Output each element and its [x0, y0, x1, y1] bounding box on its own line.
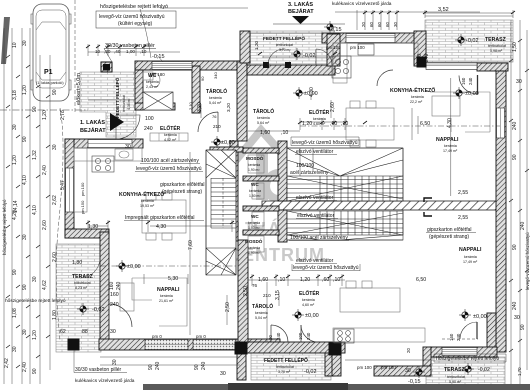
- svg-text:kerámia: kerámia: [464, 255, 477, 259]
- svg-text:pm 100: pm 100: [326, 45, 341, 50]
- svg-text:hőszigetelésbe rejtett lefolyó: hőszigetelésbe rejtett lefolyó: [436, 356, 499, 362]
- svg-text:90: 90: [512, 154, 518, 160]
- N wall unit2: [247, 65, 335, 75]
- svg-text:100/100 acél zártszelvény: 100/100 acél zártszelvény: [141, 158, 199, 164]
- svg-text:kerámia: kerámia: [257, 116, 270, 120]
- svg-text:1,80: 1,80: [72, 260, 82, 266]
- svg-text:60: 60: [377, 22, 382, 27]
- svg-text:(kültéri egység): (kültéri egység): [118, 21, 153, 27]
- svg-text:30: 30: [12, 346, 18, 352]
- svg-text:tértburkolat: tértburkolat: [447, 375, 465, 379]
- svg-text:1. LAKÁS: 1. LAKÁS: [80, 119, 105, 126]
- covered step bottom-middle: [251, 350, 331, 380]
- svg-text:kerámia: kerámia: [209, 96, 222, 100]
- svg-text:30: 30: [22, 40, 28, 46]
- svg-text:gipszkarton előtétfal: gipszkarton előtétfal: [427, 227, 471, 233]
- svg-text:±0,00: ±0,00: [473, 314, 487, 320]
- svg-text:20: 20: [361, 22, 366, 27]
- svg-text:5,47: 5,47: [60, 180, 66, 190]
- risers: [211, 179, 236, 229]
- svg-text:90: 90: [12, 269, 18, 275]
- terrace bottom-left: [56, 244, 101, 352]
- svg-text:3,70 m²: 3,70 m²: [278, 370, 291, 374]
- svg-text:NAPPALI: NAPPALI: [459, 247, 482, 253]
- svg-text:1,90 m²: 1,90 m²: [248, 168, 260, 172]
- svg-text:160: 160: [110, 292, 119, 298]
- svg-text:4,10: 4,10: [32, 205, 38, 215]
- svg-text:2,40: 2,40: [22, 362, 28, 372]
- svg-text:1,20: 1,20: [300, 277, 310, 283]
- svg-text:TÁROLÓ: TÁROLÓ: [206, 87, 227, 95]
- bottom-right dining table: [340, 288, 400, 312]
- left kitchen counter + stove: [74, 148, 142, 161]
- svg-text:pm 100: pm 100: [357, 365, 372, 370]
- svg-text:160: 160: [461, 77, 466, 85]
- svg-text:WC: WC: [251, 214, 259, 219]
- right verticals: [511, 20, 527, 384]
- partition north of stair block: [210, 147, 243, 152]
- svg-text:6,50: 6,50: [420, 121, 430, 127]
- svg-text:FEDETT FELLÉPŐ: FEDETT FELLÉPŐ: [264, 356, 308, 364]
- svg-text:88: 88: [82, 329, 88, 335]
- svg-text:KONYHA-ÉTKEZŐ: KONYHA-ÉTKEZŐ: [119, 190, 164, 198]
- S wall right unit east: [430, 347, 497, 357]
- svg-text:Impregnált gipszkarton előtétf: Impregnált gipszkarton előtétfal: [125, 215, 194, 221]
- S wall right unit west: [374, 366, 431, 376]
- svg-text:1,60: 1,60: [258, 277, 268, 283]
- svg-text:3,18: 3,18: [12, 90, 18, 100]
- N wall kitchen left: [65, 139, 143, 148]
- svg-text:2,60: 2,60: [330, 102, 336, 112]
- svg-text:10: 10: [12, 42, 18, 48]
- wall under terrace east part: [477, 63, 508, 71]
- svg-text:90: 90: [148, 364, 154, 370]
- svg-text:30: 30: [393, 22, 398, 27]
- svg-text:-0,02: -0,02: [304, 369, 317, 375]
- svg-text:1,80: 1,80: [52, 310, 58, 320]
- diagonal road strip top-left: [1, 17, 10, 64]
- svg-text:30: 30: [22, 234, 28, 240]
- watermark text: [227, 218, 325, 265]
- right dining table + chairs: [346, 108, 394, 140]
- svg-text:5,30: 5,30: [168, 276, 178, 282]
- svg-text:4,30: 4,30: [447, 118, 453, 128]
- svg-text:2,50: 2,50: [243, 286, 249, 296]
- svg-text:30/30 vasbeton pillér: 30/30 vasbeton pillér: [75, 367, 121, 373]
- svg-text:2,50: 2,50: [225, 302, 231, 312]
- svg-text:5,44 m²: 5,44 m²: [209, 101, 222, 105]
- svg-text:30: 30: [405, 368, 411, 374]
- svg-text:10: 10: [95, 49, 101, 54]
- svg-text:90: 90: [22, 136, 28, 142]
- svg-text:240: 240: [201, 361, 207, 370]
- svg-text:kerámia: kerámia: [255, 311, 268, 315]
- svg-text:90: 90: [520, 324, 526, 330]
- svg-text:2,60: 2,60: [52, 252, 58, 262]
- party wall upper: [237, 61, 247, 141]
- svg-text:kerámia: kerámia: [146, 80, 159, 84]
- svg-text:2,60: 2,60: [42, 220, 48, 230]
- svg-text:-0,15: -0,15: [408, 379, 421, 385]
- svg-text:30: 30: [220, 371, 226, 377]
- upper area diagonals/winders: [287, 148, 403, 176]
- court side walls bottom: [237, 353, 246, 380]
- svg-text:1,20: 1,20: [254, 41, 259, 50]
- party wall lower: [238, 240, 248, 346]
- svg-text:2,43 m²: 2,43 m²: [146, 85, 159, 89]
- svg-text:kerámia: kerámia: [313, 117, 326, 121]
- left verticals: [4, 28, 50, 384]
- svg-text:1,70: 1,70: [517, 367, 522, 376]
- svg-text:160: 160: [449, 333, 454, 341]
- entrance landing top-middle: [249, 31, 334, 65]
- svg-text:TÁROLÓ: TÁROLÓ: [252, 302, 273, 310]
- svg-text:,60: ,60: [330, 121, 337, 127]
- svg-text:60: 60: [369, 22, 374, 27]
- svg-text:5,90 m²: 5,90 m²: [449, 380, 462, 384]
- svg-text:240: 240: [155, 361, 161, 370]
- WC fixture top-left: [150, 73, 160, 87]
- terrace top-right: [425, 20, 513, 62]
- svg-text:2,40: 2,40: [42, 165, 48, 175]
- svg-text:hőszigetelésbe rejtett lefolyó: hőszigetelésbe rejtett lefolyó: [2, 199, 7, 255]
- svg-text:pm 100: pm 100: [381, 365, 396, 370]
- svg-text:100/100: 100/100: [296, 163, 314, 169]
- N wall left unit: [135, 61, 247, 70]
- svg-text:240: 240: [116, 281, 122, 290]
- svg-text:-0,02: -0,02: [466, 38, 479, 44]
- svg-text:90: 90: [268, 335, 273, 340]
- svg-text:30: 30: [112, 359, 118, 365]
- svg-text:WC: WC: [251, 182, 259, 187]
- svg-text:1,50: 1,50: [512, 42, 518, 52]
- svg-text:3,15: 3,15: [275, 290, 281, 300]
- svg-text:90: 90: [22, 284, 28, 290]
- bottom-right kitchen: [333, 328, 425, 342]
- svg-text:-0,15: -0,15: [329, 27, 342, 33]
- svg-text:4,30: 4,30: [156, 224, 166, 230]
- svg-text:kerámia: kerámia: [160, 294, 173, 298]
- svg-text:20: 20: [406, 348, 411, 353]
- svg-text:,10: ,10: [341, 121, 348, 127]
- svg-text:30: 30: [514, 315, 520, 321]
- svg-text:kerámia: kerámia: [248, 221, 260, 225]
- svg-text:2,62: 2,62: [52, 195, 58, 205]
- watermark logo house: [226, 130, 293, 199]
- lower flight: [320, 211, 397, 235]
- svg-text:elszívó ventilátor: elszívó ventilátor: [296, 149, 334, 155]
- svg-text:30: 30: [125, 144, 131, 150]
- svg-text:210: 210: [213, 124, 221, 129]
- svg-text:240: 240: [144, 126, 153, 132]
- svg-text:340: 340: [213, 72, 218, 79]
- S wall step vertical: [423, 347, 431, 376]
- svg-text:TERASZ: TERASZ: [72, 274, 94, 280]
- svg-text:MOSDÓ: MOSDÓ: [246, 154, 264, 161]
- bath E / stair W wall: [278, 141, 287, 201]
- svg-text:5,64 m²: 5,64 m²: [257, 121, 270, 125]
- svg-text:acél zártszelvény: acél zártszelvény: [290, 170, 329, 176]
- svg-text:,10: ,10: [140, 49, 147, 54]
- svg-text:kerámia: kerámia: [249, 189, 261, 193]
- S wall unit2 entrance: [235, 342, 345, 353]
- bottom horizontals: [100, 357, 430, 365]
- S wall left unit: [99, 339, 280, 350]
- svg-text:4,60 m²: 4,60 m²: [313, 122, 326, 126]
- svg-text:pm 180: pm 180: [150, 72, 165, 77]
- svg-text:pm 0: pm 0: [152, 334, 162, 339]
- left dining table + chairs: [142, 200, 186, 233]
- svg-text:TERASZ: TERASZ: [444, 367, 466, 373]
- left sofa: [132, 278, 187, 326]
- svg-text:90: 90: [512, 244, 518, 250]
- svg-text:4,10: 4,10: [22, 175, 28, 185]
- svg-text:levegő-víz üzemű hőszivattyú: levegő-víz üzemű hőszivattyú: [136, 166, 202, 172]
- top winder fan: [206, 150, 236, 178]
- svg-text:kerámia: kerámia: [248, 246, 260, 250]
- svg-text:160: 160: [417, 53, 423, 62]
- svg-text:levegő-víz üzemű hőszivattyú: levegő-víz üzemű hőszivattyú: [293, 265, 359, 271]
- shaft with X top-left: [143, 92, 173, 110]
- svg-text:3,52: 3,52: [438, 7, 449, 13]
- svg-text:kerámia: kerámia: [444, 144, 457, 148]
- svg-text:előkert=5,0m: előkert=5,0m: [76, 73, 82, 105]
- svg-text:±0,00: ±0,00: [465, 91, 479, 97]
- W wall upper: [65, 139, 74, 238]
- svg-text:5,04 m²: 5,04 m²: [255, 316, 268, 320]
- svg-text:1,20: 1,20: [12, 155, 18, 165]
- N wall right unit: [322, 33, 418, 43]
- svg-text:17,49 m²: 17,49 m²: [443, 149, 458, 153]
- svg-text:2,55: 2,55: [458, 190, 468, 196]
- bath fixtures center column: [248, 155, 264, 173]
- svg-text:P1: P1: [44, 69, 53, 76]
- svg-text:90: 90: [194, 364, 200, 370]
- svg-text:62: 62: [60, 329, 66, 335]
- svg-text:ELŐTÉR: ELŐTÉR: [299, 289, 320, 297]
- svg-text:4,02 m²: 4,02 m²: [164, 138, 177, 142]
- svg-text:160: 160: [109, 281, 115, 290]
- svg-text:FEDETT FELLÉPŐ: FEDETT FELLÉPŐ: [113, 77, 120, 118]
- svg-text:±0,00: ±0,00: [127, 264, 141, 270]
- svg-text:100: 100: [145, 116, 154, 122]
- svg-text:3,20: 3,20: [226, 103, 231, 112]
- svg-text:30: 30: [52, 144, 58, 150]
- svg-text:-0,02: -0,02: [478, 367, 490, 373]
- svg-text:8,23 m²: 8,23 m²: [75, 286, 88, 290]
- svg-text:tértburkolat: tértburkolat: [276, 365, 294, 369]
- svg-text:3,20: 3,20: [197, 102, 203, 112]
- svg-text:kerámia: kerámia: [302, 298, 315, 302]
- svg-text:tértburkolat: tértburkolat: [276, 43, 293, 47]
- svg-text:elszívó ventilátor: elszívó ventilátor: [296, 258, 334, 264]
- svg-text:1,60: 1,60: [260, 130, 270, 136]
- svg-text:30: 30: [12, 124, 18, 130]
- svg-text:-0,15: -0,15: [152, 54, 165, 60]
- right unit top kitchen: [333, 43, 418, 56]
- svg-text:3,70 m²: 3,70 m²: [279, 48, 291, 52]
- svg-text:19,53 m²: 19,53 m²: [140, 204, 155, 208]
- E wall: [496, 71, 506, 352]
- svg-text:BEJÁRAT: BEJÁRAT: [80, 127, 106, 134]
- svg-text:22,2 m²: 22,2 m²: [410, 100, 423, 104]
- small partitions center bathrooms: [243, 148, 279, 153]
- svg-text:,40: ,40: [114, 49, 121, 54]
- court door arcs top: [268, 49, 332, 65]
- svg-text:2,78: 2,78: [60, 110, 66, 120]
- svg-text:1,20: 1,20: [22, 85, 28, 95]
- partition left unit: [192, 66, 200, 113]
- svg-text:30: 30: [516, 79, 522, 85]
- svg-text:4,30: 4,30: [309, 87, 315, 97]
- svg-text:kulékavics vízelvezető járda: kulékavics vízelvezető járda: [75, 378, 135, 384]
- dashed property line near car: [74, 0, 76, 112]
- svg-text:elszívó ventilátor: elszívó ventilátor: [296, 195, 334, 201]
- horizontal riser grid upper: [287, 180, 403, 198]
- left ticks: [6, 55, 50, 368]
- bath W wall: [230, 141, 238, 241]
- svg-text:kerámia: kerámia: [141, 199, 154, 203]
- svg-text:bitburkolat: bitburkolat: [74, 281, 91, 285]
- covered step top-left (FEDETT FELLEPO): [80, 72, 136, 137]
- terrace W wall top-right: [414, 31, 426, 66]
- svg-text:76: 76: [212, 114, 217, 119]
- top horizontals: [88, 8, 513, 52]
- bottom dark strip: [143, 384, 530, 390]
- SE corner pier: [487, 313, 496, 349]
- svg-text:kulékavics vízelvezető járda: kulékavics vízelvezető járda: [332, 1, 392, 7]
- svg-text:1,20: 1,20: [32, 330, 38, 340]
- svg-text:240: 240: [110, 302, 119, 308]
- svg-text:240: 240: [512, 301, 518, 310]
- svg-text:(1. lakás parkoló): (1. lakás parkoló): [36, 81, 64, 85]
- svg-text:1,50 m²: 1,50 m²: [249, 194, 261, 198]
- svg-text:levegő-víz üzemű hőszivattyú: levegő-víz üzemű hőszivattyú: [292, 140, 358, 146]
- svg-text:elszívó ventilátor: elszívó ventilátor: [297, 213, 335, 219]
- svg-text:tértburkolat: tértburkolat: [122, 95, 126, 112]
- svg-text:kerámia: kerámia: [164, 133, 177, 137]
- svg-text:60: 60: [385, 22, 390, 27]
- svg-text:±0,00: ±0,00: [305, 313, 319, 319]
- svg-text:±0,00: ±0,00: [221, 140, 235, 146]
- vertical risers upper: [320, 176, 397, 201]
- extra interior dimension lines + ticks: [88, 9, 513, 342]
- svg-text:ELŐTÉR: ELŐTÉR: [309, 108, 330, 116]
- svg-text:240: 240: [468, 77, 473, 85]
- svg-text:NAPPALI: NAPPALI: [436, 137, 459, 143]
- svg-text:90: 90: [32, 368, 38, 374]
- svg-text:1,32: 1,32: [32, 150, 38, 160]
- svg-text:21,61 m²: 21,61 m²: [159, 299, 174, 303]
- right sofa NAPPALI: [430, 92, 490, 132]
- svg-text:levegő-víz üzemű hőszivattyú: levegő-víz üzemű hőszivattyú: [99, 14, 165, 20]
- svg-text:100/100 acél zártszelvény: 100/100 acél zártszelvény: [290, 235, 348, 241]
- svg-text:hőszigetelésbe rejtett lefolyó: hőszigetelésbe rejtett lefolyó: [5, 298, 66, 304]
- svg-text:2,55: 2,55: [458, 215, 468, 221]
- svg-text:TÁROLÓ: TÁROLÓ: [253, 107, 274, 115]
- svg-text:240: 240: [520, 221, 526, 230]
- step wall: [65, 229, 109, 238]
- svg-text:,10: ,10: [333, 277, 340, 283]
- svg-text:pm 100: pm 100: [80, 182, 85, 196]
- svg-text:1,20: 1,20: [302, 121, 312, 127]
- svg-text:30: 30: [32, 276, 38, 282]
- svg-text:4,20: 4,20: [12, 210, 18, 220]
- svg-text:pm 0: pm 0: [196, 334, 206, 339]
- bottom winder fan: [206, 248, 236, 275]
- svg-text:17,49 m²: 17,49 m²: [463, 260, 478, 264]
- svg-text:,30: ,30: [104, 49, 111, 54]
- svg-text:240: 240: [276, 332, 281, 340]
- svg-text:kerámia: kerámia: [248, 163, 260, 167]
- svg-text:30: 30: [22, 329, 28, 335]
- svg-text:1,30: 1,30: [88, 224, 98, 230]
- svg-text:pm 100: pm 100: [350, 45, 365, 50]
- svg-text:30: 30: [110, 329, 116, 335]
- svg-text:1,00: 1,00: [126, 49, 135, 54]
- svg-text:4,60 m²: 4,60 m²: [302, 303, 315, 307]
- svg-text:BEJÁRAT: BEJÁRAT: [288, 8, 314, 15]
- svg-text:76: 76: [252, 283, 258, 288]
- svg-text:KONYHA-ÉTKEZŐ: KONYHA-ÉTKEZŐ: [390, 86, 435, 94]
- svg-text:5,98 m²: 5,98 m²: [490, 49, 503, 53]
- svg-text:MOSDÓ: MOSDÓ: [245, 237, 263, 244]
- svg-text:90: 90: [52, 89, 58, 95]
- svg-text:6,50: 6,50: [416, 277, 426, 283]
- svg-text:240: 240: [456, 333, 461, 341]
- svg-text:4,36 m²: 4,36 m²: [127, 98, 131, 110]
- svg-text:90: 90: [32, 106, 38, 112]
- svg-text:,60: ,60: [322, 277, 329, 283]
- svg-text:-0,02: -0,02: [303, 53, 316, 59]
- svg-text:levegő-víz üzemű hőszivattyú: levegő-víz üzemű hőszivattyú: [525, 232, 530, 290]
- svg-text:-0,02: -0,02: [92, 307, 105, 313]
- svg-text:1,90 m²: 1,90 m²: [248, 251, 260, 255]
- svg-text:ELŐTÉR: ELŐTÉR: [160, 124, 181, 132]
- svg-text:tértburkolat: tértburkolat: [488, 44, 506, 48]
- interior wall right unit: [327, 34, 340, 66]
- dimension numbers: [60, 45, 522, 377]
- svg-text:100: 100: [298, 332, 303, 340]
- svg-text:4,62: 4,62: [42, 280, 48, 290]
- bracket marks at band: [424, 198, 432, 216]
- svg-text:2,10: 2,10: [188, 101, 193, 110]
- svg-text:(gépészeti strang): (gépészeti strang): [429, 234, 469, 240]
- svg-text:pm 150: pm 150: [80, 200, 85, 214]
- svg-text:2,42: 2,42: [4, 358, 10, 368]
- svg-text:kerámia: kerámia: [411, 95, 424, 99]
- svg-text:1,20: 1,20: [42, 110, 48, 120]
- svg-text:1,08: 1,08: [12, 308, 18, 318]
- svg-text:NAPPALI: NAPPALI: [157, 287, 180, 293]
- svg-text:7,60: 7,60: [188, 240, 194, 250]
- svg-text:,10: ,10: [278, 277, 285, 283]
- svg-text:210: 210: [263, 293, 271, 298]
- svg-text:,10: ,10: [281, 130, 288, 136]
- svg-text:(gépészeti strang): (gépészeti strang): [162, 189, 202, 195]
- svg-text:240: 240: [306, 332, 311, 340]
- interior dimension rows: [300, 125, 500, 127]
- WC box wall top-left: [135, 70, 143, 110]
- svg-text:240: 240: [512, 121, 518, 130]
- svg-text:TERASZ: TERASZ: [485, 37, 507, 43]
- door posts court: [263, 62, 291, 68]
- W wall right-bottom unit: [325, 345, 334, 376]
- terrace bottom-right: [426, 357, 505, 386]
- svg-text:3. LAKÁS: 3. LAKÁS: [288, 1, 313, 8]
- svg-text:hőszigetelésbe rejtett lefolyó: hőszigetelésbe rejtett lefolyó: [100, 4, 168, 10]
- svg-text:240: 240: [424, 53, 430, 62]
